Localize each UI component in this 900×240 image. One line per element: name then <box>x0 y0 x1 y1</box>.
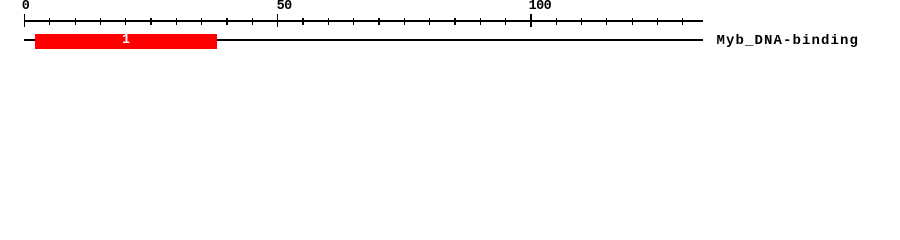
ruler minor tick at 90 aa <box>480 18 481 25</box>
domain name Myb_DNA-binding <box>717 34 860 48</box>
ruler major tick at 0 aa <box>24 14 26 27</box>
ruler minor tick at 40 aa <box>226 18 227 25</box>
ruler major tick at 100 aa <box>530 14 532 27</box>
domain box 1 (Myb_DNA-binding) <box>35 34 217 49</box>
ruler minor tick at 120 aa <box>632 18 633 25</box>
sequence line <box>24 39 703 41</box>
ruler minor tick at 130 aa <box>682 18 683 25</box>
ruler minor tick at 45 aa <box>252 18 253 25</box>
ruler minor tick at 20 aa <box>125 18 126 25</box>
ruler label 0 <box>22 2 30 11</box>
ruler major tick at 50 aa <box>277 14 279 27</box>
ruler minor tick at 125 aa <box>657 18 658 25</box>
ruler minor tick at 115 aa <box>606 18 607 25</box>
ruler minor tick at 30 aa <box>176 18 177 25</box>
ruler label 100 <box>529 2 552 11</box>
ruler minor tick at 35 aa <box>201 18 202 25</box>
ruler line <box>24 20 703 22</box>
ruler minor tick at 10 aa <box>75 18 76 25</box>
ruler minor tick at 80 aa <box>429 18 430 25</box>
ruler minor tick at 60 aa <box>328 18 329 25</box>
ruler minor tick at 95 aa <box>505 18 506 25</box>
ruler minor tick at 15 aa <box>100 18 101 25</box>
ruler minor tick at 105 aa <box>556 18 557 25</box>
ruler minor tick at 70 aa <box>378 18 379 25</box>
ruler minor tick at 65 aa <box>353 18 354 25</box>
ruler minor tick at 25 aa <box>150 18 151 25</box>
ruler label 50 <box>277 2 292 11</box>
ruler minor tick at 75 aa <box>404 18 405 25</box>
ruler minor tick at 55 aa <box>302 18 303 25</box>
ruler minor tick at 110 aa <box>581 18 582 25</box>
ruler minor tick at 5 aa <box>49 18 50 25</box>
domain box label 1 <box>35 34 217 49</box>
ruler minor tick at 85 aa <box>454 18 455 25</box>
